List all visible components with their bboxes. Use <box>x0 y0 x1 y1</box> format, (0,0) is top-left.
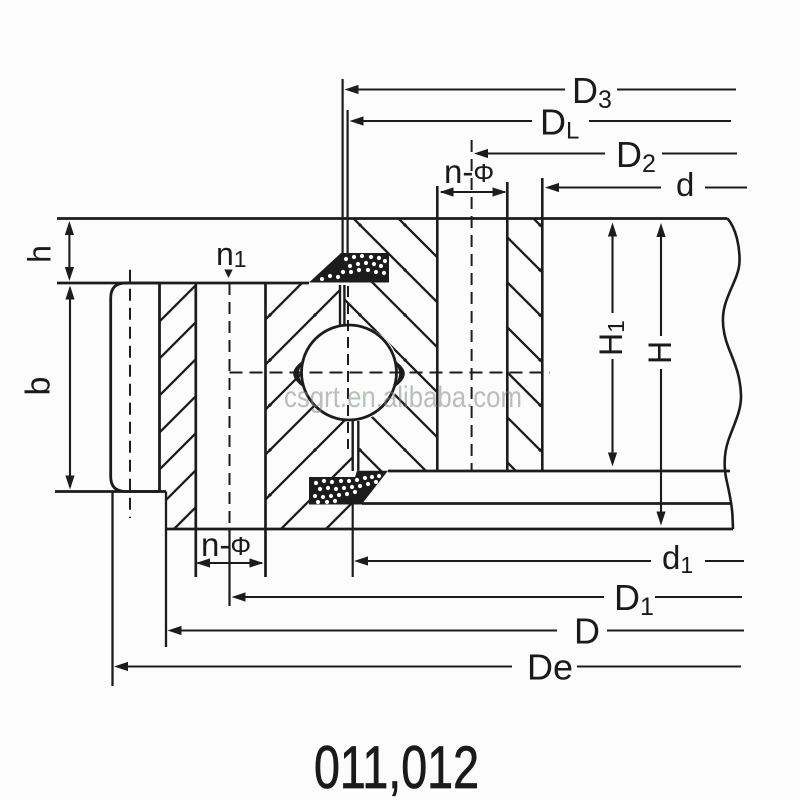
svg-text:csgrt.en.alibaba.com: csgrt.en.alibaba.com <box>284 381 522 414</box>
svg-text:h: h <box>22 245 58 263</box>
svg-text:H: H <box>642 341 678 364</box>
svg-text:De: De <box>527 647 573 688</box>
svg-text:n-Φ: n-Φ <box>201 526 251 563</box>
svg-text:D: D <box>574 611 600 652</box>
svg-text:011,012: 011,012 <box>314 734 479 800</box>
svg-text:d: d <box>676 166 694 203</box>
svg-text:b: b <box>20 377 58 396</box>
svg-text:n-Φ: n-Φ <box>444 153 494 190</box>
